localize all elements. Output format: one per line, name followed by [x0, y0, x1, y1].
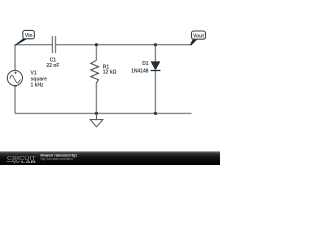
wire D1 branch [154, 45, 156, 114]
node junction bottom R1/ground [95, 112, 98, 115]
voltage source V1 [7, 70, 22, 86]
flag Vout [190, 31, 206, 45]
svg-text:LAB: LAB [21, 159, 36, 164]
resistor R1 zigzag [91, 60, 99, 83]
footer bar [0, 151, 220, 165]
diode D1 [151, 62, 161, 71]
svg-text:1N4148: 1N4148 [131, 68, 149, 74]
node junction bottom D1 [154, 112, 157, 115]
node junction top R1 [95, 43, 98, 46]
svg-text:D1: D1 [142, 61, 149, 67]
wire left vertical V1 branch [14, 45, 16, 114]
svg-text:22 nF: 22 nF [46, 63, 59, 69]
svg-text:1 kHz: 1 kHz [31, 83, 45, 89]
svg-text:square: square [31, 76, 48, 82]
ground [90, 114, 103, 127]
svg-text:http://circuitlab.com/c6bv4: http://circuitlab.com/c6bv4 [40, 157, 73, 161]
wire top net Vin-Vout [15, 44, 191, 46]
wire R1 branch [95, 45, 97, 114]
wire bottom ground net [15, 112, 192, 114]
capacitor C1 plates [52, 36, 55, 53]
flag Vin [14, 30, 34, 45]
svg-text:Vout: Vout [193, 33, 204, 39]
footer CircuitLab logo [6, 156, 36, 164]
svg-text:12 kΩ: 12 kΩ [103, 69, 117, 75]
node junction top D1 [154, 43, 157, 46]
svg-text:Vin: Vin [25, 33, 33, 39]
